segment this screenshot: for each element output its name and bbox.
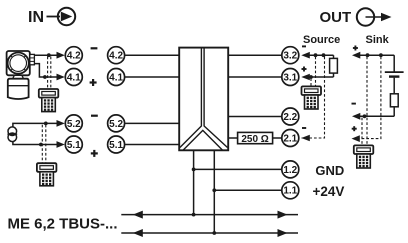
- isolator block U1: [179, 48, 228, 151]
- svg-text:1.1: 1.1: [283, 186, 297, 197]
- svg-text:GND: GND: [315, 163, 344, 178]
- svg-text:4.2: 4.2: [109, 51, 123, 62]
- HART communicator H4 (sink): [354, 145, 374, 168]
- wire 1.1: [214, 189, 281, 191]
- wire block to 250ohm: [228, 137, 237, 139]
- polarity + (input2): [91, 150, 98, 157]
- polarity + (sink top): [353, 46, 358, 51]
- svg-text:IN: IN: [28, 9, 44, 26]
- power feed left vertical: [192, 150, 196, 216]
- svg-text:5.2: 5.2: [109, 119, 123, 130]
- terminal 1.2: [282, 161, 299, 178]
- svg-text:4.2: 4.2: [67, 51, 81, 62]
- wire block to 2.2: [228, 116, 282, 118]
- svg-text:250 Ω: 250 Ω: [241, 134, 268, 145]
- polarity - (input1): [91, 47, 98, 49]
- terminal 5.1 (field side): [65, 136, 82, 153]
- svg-text:5.1: 5.1: [109, 140, 123, 151]
- polarity + (input1): [90, 79, 97, 86]
- svg-text:Sink: Sink: [366, 34, 390, 46]
- polarity - (2.1 dashed): [302, 127, 306, 129]
- dashed sink arrow: [352, 135, 360, 142]
- source wire 3.2 row: [301, 52, 333, 59]
- sink wire top row: [352, 52, 394, 72]
- svg-text:3.2: 3.2: [283, 51, 297, 62]
- dashed arrow into 2.1: [301, 135, 310, 142]
- wire 4.2 to block: [125, 54, 180, 56]
- sink wire bottom row: [352, 107, 394, 120]
- terminal 4.2 (field side): [65, 47, 82, 64]
- dashed leads (sink): [354, 57, 381, 146]
- polarity - (sink bottom): [352, 103, 356, 105]
- bus line 2: [121, 229, 298, 237]
- wire block to 3.1: [228, 76, 282, 78]
- svg-text:2.1: 2.1: [283, 133, 297, 144]
- terminal 1.1: [282, 182, 299, 199]
- terminal 4.2 (module): [108, 47, 125, 64]
- terminal 5.2 (field side): [65, 115, 82, 132]
- svg-text:OUT: OUT: [320, 9, 352, 26]
- svg-text:4.1: 4.1: [67, 72, 81, 83]
- svg-text:3.1: 3.1: [283, 72, 297, 83]
- wire: transmitter - lead to 4.1: [34, 64, 64, 81]
- dashed HART leads (input 2): [42, 125, 46, 163]
- terminal 2.2: [282, 108, 299, 125]
- wire: source - lead to 5.1: [13, 141, 65, 148]
- power feed right vertical: [212, 150, 216, 235]
- terminal 3.1: [282, 69, 299, 86]
- wire 250ohm to 2.1: [273, 137, 282, 139]
- terminal 5.1 (module): [108, 136, 125, 153]
- wire 5.2 to block: [125, 122, 180, 124]
- svg-text:5.2: 5.2: [67, 119, 81, 130]
- terminal 4.1 (field side): [65, 69, 82, 86]
- source wire 3.1 row: [301, 73, 333, 80]
- wire 1.2: [194, 168, 282, 170]
- load resistor (source): [330, 58, 338, 73]
- IN flow symbol: [28, 8, 75, 26]
- HART communicator H2: [37, 163, 57, 186]
- resistor 250 ohm: [238, 132, 273, 145]
- svg-text:ME 6,2 TBUS-...: ME 6,2 TBUS-...: [8, 216, 118, 233]
- wire 5.1 to block: [125, 144, 180, 146]
- terminal 2.1: [282, 130, 299, 147]
- svg-text:Source: Source: [303, 34, 340, 46]
- polarity - (input2): [91, 115, 98, 117]
- terminal 5.2 (module): [108, 115, 125, 132]
- HART communicator H3 (source): [302, 86, 322, 109]
- wire: transmitter + lead to 4.2: [34, 52, 64, 59]
- svg-text:5.1: 5.1: [67, 140, 81, 151]
- svg-text:1.2: 1.2: [283, 165, 297, 176]
- wire: source + lead to 5.2: [13, 120, 65, 127]
- OUT flow symbol: [320, 8, 392, 26]
- dashed HART leads (source): [302, 57, 325, 139]
- wire block to 3.2: [228, 54, 282, 56]
- current source symbol (input 2): [7, 127, 17, 142]
- svg-text:2.2: 2.2: [283, 112, 297, 123]
- svg-text:+24V: +24V: [313, 184, 345, 199]
- polarity + (3.1): [302, 67, 307, 72]
- polarity - (3.2): [302, 45, 306, 47]
- wire 4.1 to block: [125, 76, 180, 78]
- terminal 3.2: [282, 47, 299, 64]
- resistor (sink load): [390, 94, 398, 107]
- HART communicator H1: [39, 89, 59, 112]
- bus line 1: [121, 211, 298, 219]
- polarity + (sink dashed): [352, 126, 357, 131]
- transmitter T1 (field device): [7, 51, 35, 99]
- svg-text:4.1: 4.1: [109, 72, 123, 83]
- dashed HART leads (input 1): [48, 57, 51, 89]
- terminal 4.1 (module): [108, 69, 125, 86]
- battery B1 (sink supply): [385, 72, 404, 94]
